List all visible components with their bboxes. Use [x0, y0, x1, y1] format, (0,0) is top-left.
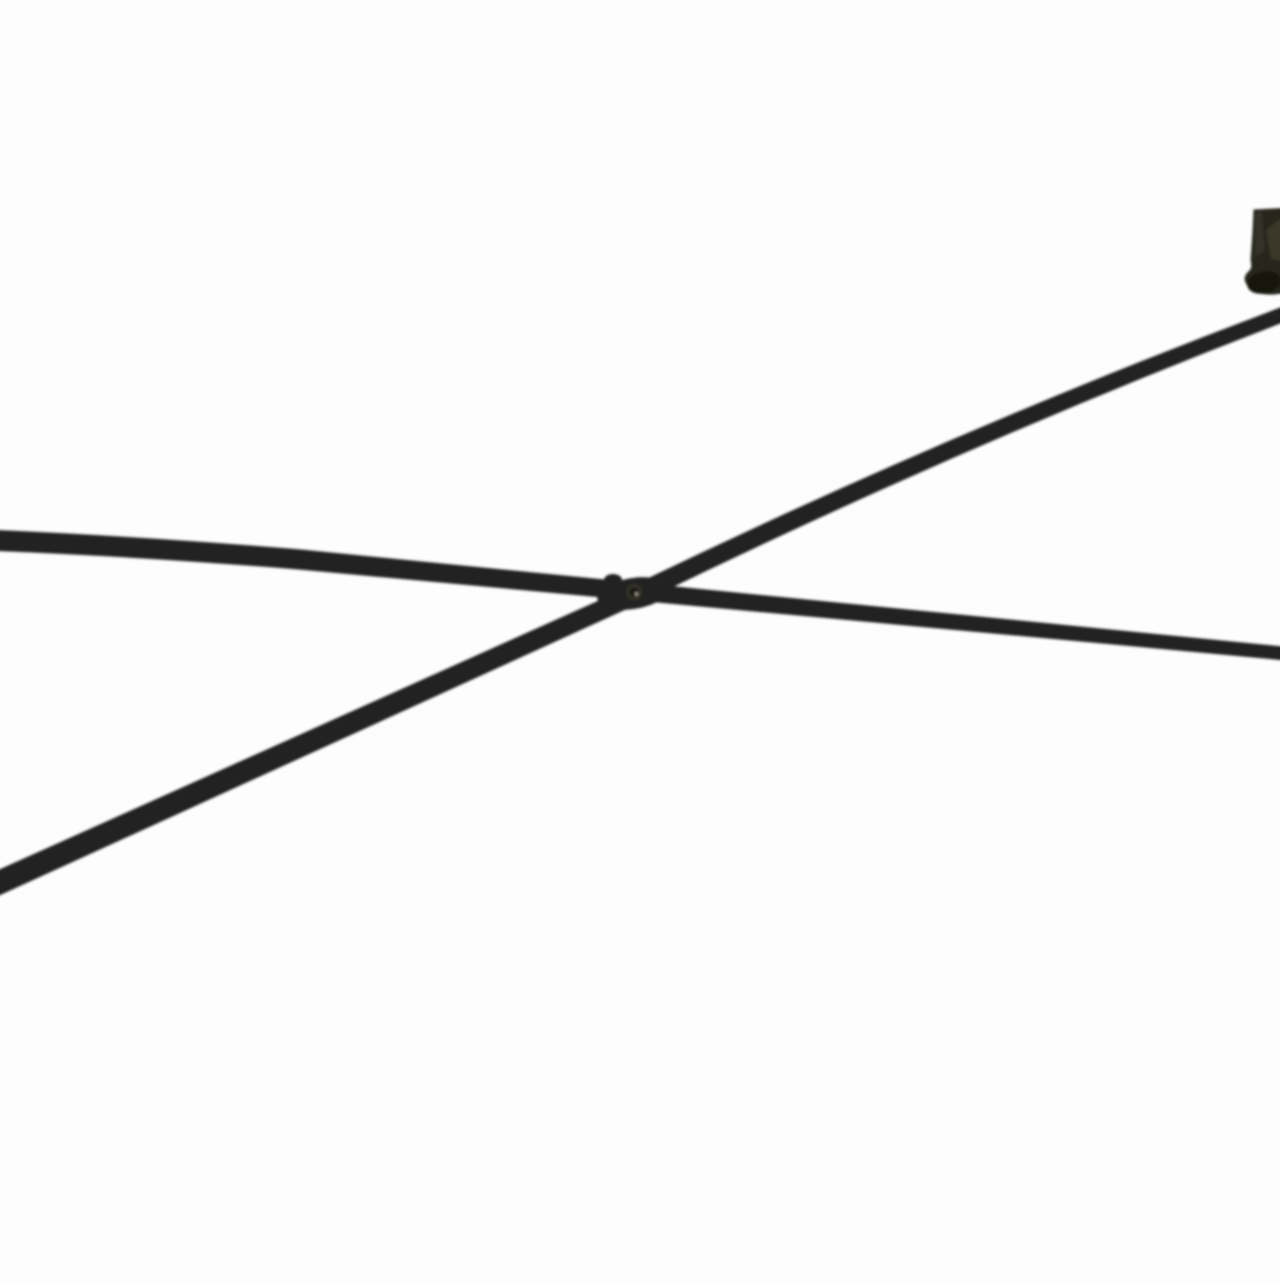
- shallow bar upper-left to lower-right: [0, 530, 1280, 660]
- rivet: [625, 583, 643, 601]
- steep bar lower-left to upper-right: [0, 307, 1280, 897]
- foot bracket top right: [1245, 208, 1280, 295]
- joint blob: [595, 573, 671, 615]
